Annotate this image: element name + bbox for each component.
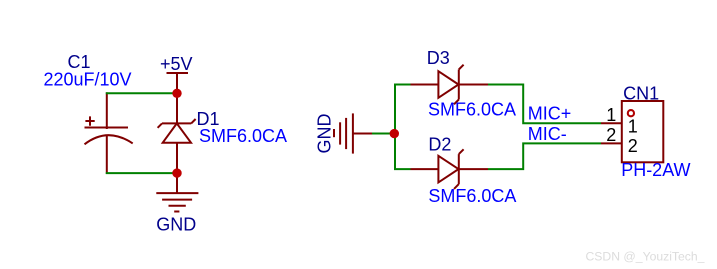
diode D3 — [411, 65, 489, 105]
wire gnd to junction — [372, 133, 394, 135]
junction dot — [390, 129, 399, 138]
svg-text:CN1: CN1 — [623, 83, 659, 103]
diode D2 — [411, 149, 489, 189]
wire D2 to MIC- — [488, 143, 601, 169]
power +5V — [167, 73, 189, 92]
wire to D3 — [394, 84, 411, 86]
svg-text:D2: D2 — [428, 134, 451, 154]
junction dot — [172, 89, 181, 98]
svg-text:1: 1 — [606, 105, 616, 125]
svg-text:SMF6.0CA: SMF6.0CA — [428, 99, 516, 119]
junction dot — [172, 168, 181, 177]
wire top — [106, 92, 177, 94]
svg-text:CSDN @_YouziTech_: CSDN @_YouziTech_ — [586, 250, 705, 264]
svg-text:GND: GND — [156, 215, 196, 235]
svg-text:SMF6.0CA: SMF6.0CA — [428, 186, 516, 206]
wire D3 to MIC+ — [488, 85, 601, 124]
svg-text:MIC+: MIC+ — [528, 104, 572, 124]
svg-text:2: 2 — [628, 136, 638, 156]
svg-text:2: 2 — [606, 125, 616, 145]
capacitor C1 — [85, 92, 133, 174]
pin 2 stub — [601, 142, 622, 144]
svg-text:+5V: +5V — [160, 54, 193, 74]
ground right (rotated) — [334, 113, 373, 153]
ground left — [156, 173, 198, 211]
pin-1 indicator circle — [628, 110, 634, 116]
svg-text:SMF6.0CA: SMF6.0CA — [199, 126, 287, 146]
wire to D2 — [394, 168, 411, 170]
wire bottom — [106, 172, 177, 174]
svg-text:PH-2AW: PH-2AW — [621, 160, 690, 180]
connector CN1 body — [622, 101, 664, 162]
diode D1 — [158, 92, 196, 174]
pin 1 stub — [601, 122, 622, 124]
wire vertical trunk — [394, 85, 396, 170]
svg-text:D3: D3 — [427, 48, 450, 68]
svg-text:1: 1 — [628, 116, 638, 136]
svg-text:GND: GND — [314, 114, 334, 154]
svg-text:220uF/10V: 220uF/10V — [44, 69, 132, 89]
svg-text:MIC-: MIC- — [528, 124, 567, 144]
